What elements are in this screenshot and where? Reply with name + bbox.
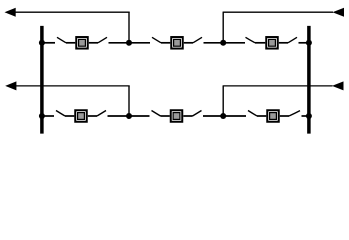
junction dot on bus B1 top feeder xyxy=(39,40,45,46)
wire top feeder: bus B1 to switch S1 xyxy=(41,42,55,44)
bus B2 (right substation bus) xyxy=(307,26,311,134)
wire top-left branch vertical xyxy=(128,12,130,43)
arrow source feed top-right xyxy=(333,8,345,17)
wire top feeder: S3 to bus B2 xyxy=(299,42,311,44)
junction J1 xyxy=(126,40,132,46)
junction J3 xyxy=(126,113,132,119)
wire top feeder: S2 to junction J2 xyxy=(204,42,224,44)
switch S6 (sectionalizing switch, bottom feeder right) xyxy=(248,110,300,122)
wire top feeder: J1 to switch S2 xyxy=(129,42,150,44)
wire top-left branch horizontal xyxy=(15,11,130,13)
switch S5 (sectionalizing switch, bottom feeder middle) xyxy=(152,110,202,122)
junction J2 xyxy=(220,40,226,46)
arrow source feed bottom-right xyxy=(332,81,344,90)
arrow source feed bottom-left xyxy=(5,81,16,90)
switch S3 (sectionalizing switch, top feeder right) xyxy=(246,37,298,49)
wire bottom feeder: J3 to switch S5 xyxy=(129,115,150,117)
junction dot on bus B1 bottom feeder xyxy=(39,113,45,119)
switch S1 (sectionalizing switch, top feeder left) xyxy=(57,37,107,49)
wire top feeder: S1 to junction J1 xyxy=(109,42,130,44)
wire top feeder: J2 to switch S3 xyxy=(223,42,245,44)
wire top-right branch horizontal xyxy=(223,11,333,13)
switch S4 (sectionalizing switch, bottom feeder left) xyxy=(56,110,106,122)
wire bottom-left branch horizontal (crosses bus B1) xyxy=(16,85,130,87)
wire bottom feeder: J4 to switch S6 xyxy=(223,115,246,117)
wire bottom-right branch horizontal (crosses bus B2) xyxy=(223,85,333,87)
wire bottom feeder: S5 to junction J4 xyxy=(203,115,223,117)
wire bottom-right branch vertical xyxy=(222,86,224,116)
arrow source feed top-left xyxy=(5,8,16,17)
junction dot on bus B2 top feeder xyxy=(306,40,312,46)
wire top-right branch vertical xyxy=(222,12,224,43)
wire bottom feeder: S4 to junction J3 xyxy=(108,115,130,117)
wire bottom feeder: bus B1 to switch S4 xyxy=(41,115,54,117)
junction dot on bus B2 bottom feeder xyxy=(306,113,312,119)
wire bottom feeder: S6 to bus B2 xyxy=(302,115,311,117)
wire bottom-left branch vertical xyxy=(128,86,130,116)
switch S2 (sectionalizing switch, top feeder middle) xyxy=(152,37,202,49)
bus B1 (left substation bus) xyxy=(40,26,44,134)
junction J4 xyxy=(220,113,226,119)
